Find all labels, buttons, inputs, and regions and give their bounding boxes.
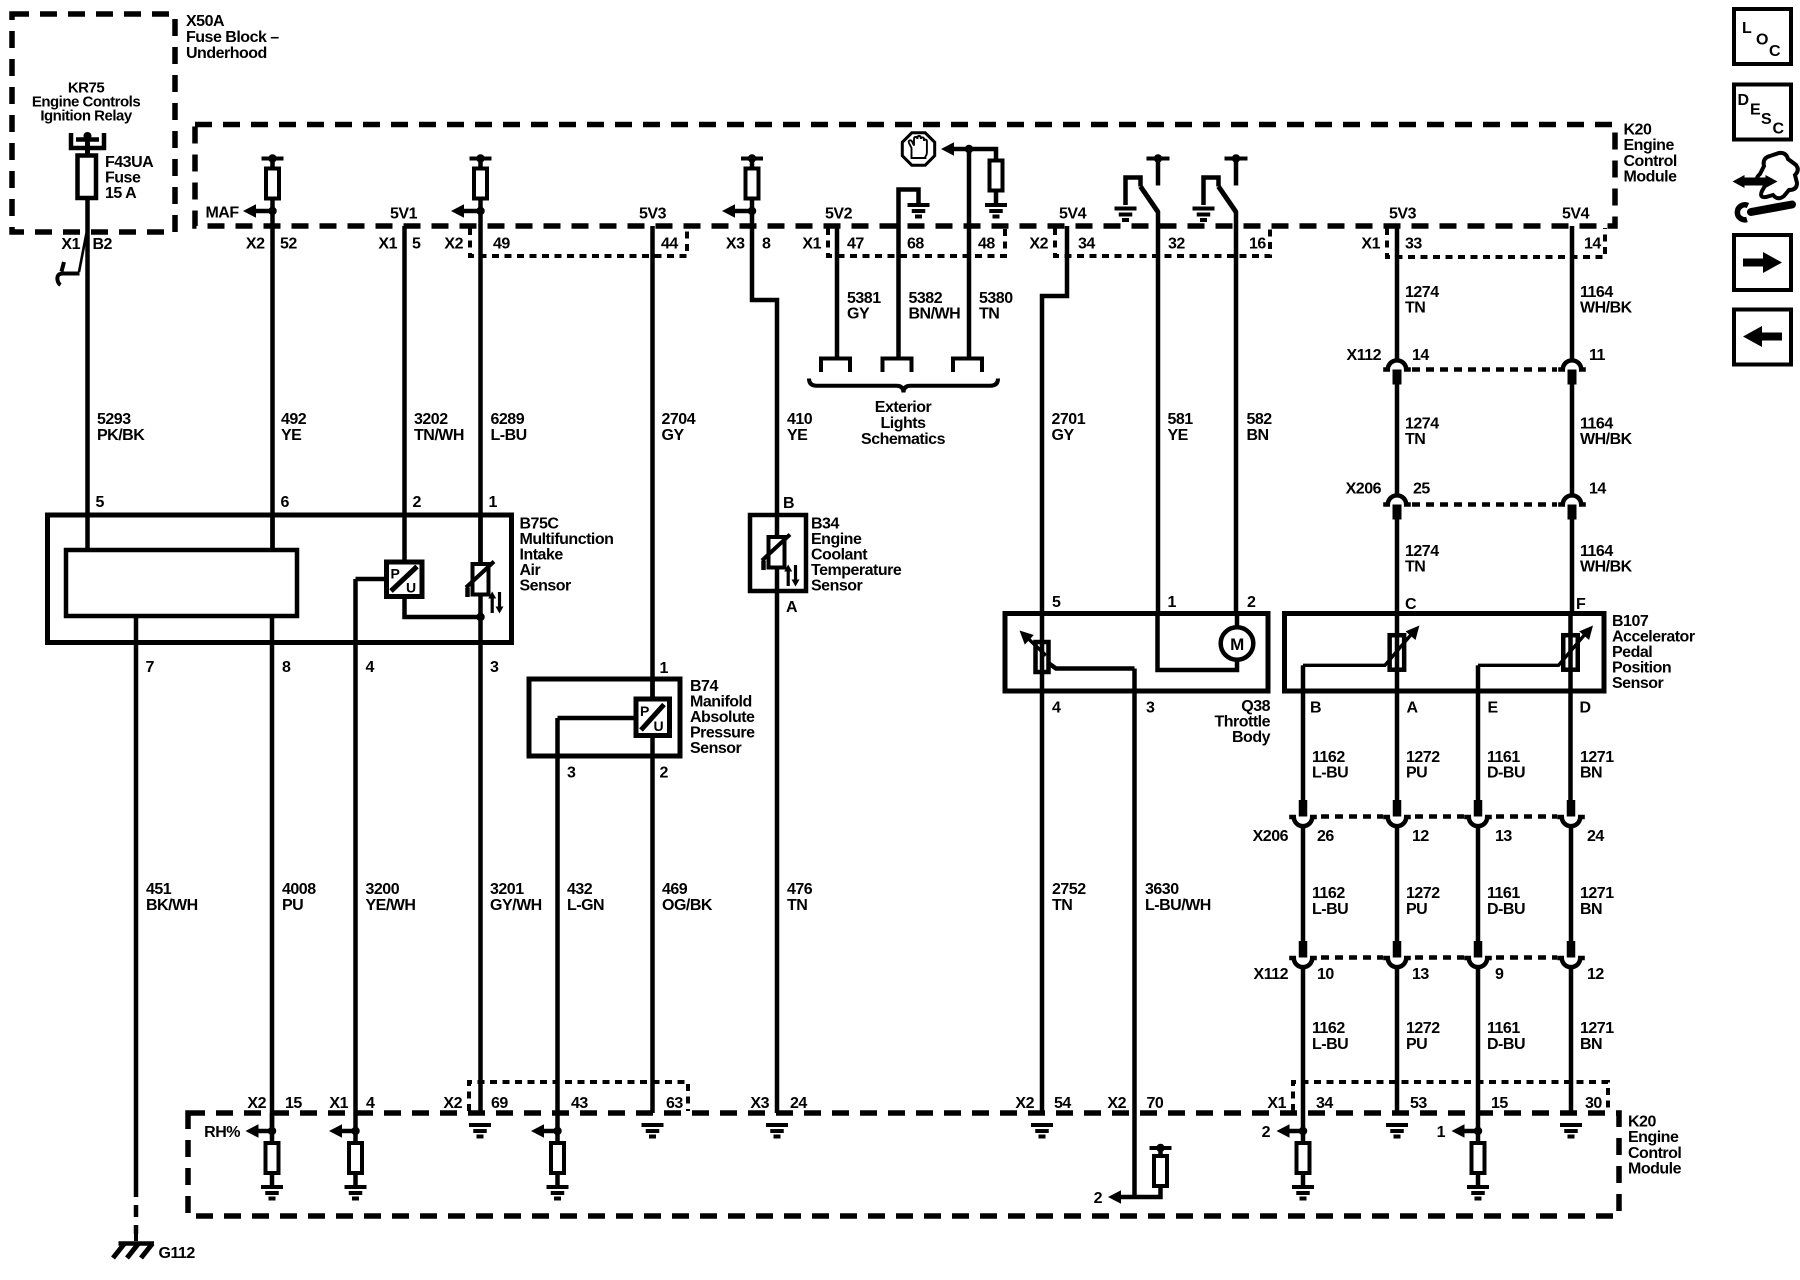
svg-text:Engine: Engine [1628,1129,1679,1146]
svg-text:X2: X2 [443,1095,462,1112]
svg-text:GY/WH: GY/WH [490,897,542,914]
svg-text:YE: YE [281,427,302,444]
svg-text:U: U [406,580,416,596]
svg-text:1162: 1162 [1312,749,1345,766]
svg-text:581: 581 [1168,411,1194,428]
svg-text:52: 52 [280,236,297,253]
svg-text:1: 1 [489,494,498,511]
svg-text:492: 492 [281,411,307,428]
svg-text:24: 24 [790,1095,807,1112]
svg-text:26: 26 [1317,828,1334,845]
svg-text:G112: G112 [159,1245,196,1262]
svg-text:1161: 1161 [1487,885,1520,902]
svg-text:1162: 1162 [1312,885,1345,902]
svg-text:PU: PU [1406,1036,1427,1053]
svg-text:476: 476 [787,881,813,898]
svg-text:5V4: 5V4 [1059,206,1087,223]
svg-text:1274: 1274 [1405,284,1439,301]
svg-text:1164: 1164 [1580,543,1613,560]
svg-text:Manifold: Manifold [690,694,752,711]
svg-text:34: 34 [1078,236,1095,253]
svg-text:1272: 1272 [1406,1020,1440,1037]
svg-text:14: 14 [1412,347,1429,364]
svg-text:451: 451 [146,881,172,898]
svg-text:X2: X2 [444,236,463,253]
svg-text:15: 15 [285,1095,302,1112]
svg-text:TN: TN [787,897,807,914]
svg-text:TN: TN [979,306,999,323]
svg-text:48: 48 [978,236,995,253]
svg-text:1: 1 [1437,1124,1446,1141]
svg-text:X2: X2 [1107,1095,1126,1112]
svg-text:Module: Module [1624,169,1678,186]
svg-text:X1: X1 [802,236,821,253]
svg-text:Intake: Intake [520,547,564,564]
svg-text:YE/WH: YE/WH [366,897,416,914]
svg-text:L: L [1742,20,1752,37]
svg-text:1272: 1272 [1406,749,1440,766]
svg-text:69: 69 [491,1095,508,1112]
svg-text:2704: 2704 [662,411,696,428]
svg-text:6: 6 [281,494,290,511]
svg-text:B34: B34 [811,516,839,533]
svg-text:L-BU: L-BU [1312,765,1348,782]
svg-text:BN/WH: BN/WH [909,306,961,323]
svg-text:63: 63 [666,1095,683,1112]
svg-text:WH/BK: WH/BK [1580,300,1633,317]
svg-text:5V4: 5V4 [1562,206,1590,223]
svg-text:Sensor: Sensor [811,578,863,595]
svg-text:A: A [786,599,798,616]
svg-text:PK/BK: PK/BK [97,427,145,444]
svg-text:4: 4 [366,659,375,676]
svg-text:PU: PU [1406,901,1427,918]
svg-text:Sensor: Sensor [520,578,572,595]
svg-text:432: 432 [567,881,593,898]
svg-text:5381: 5381 [847,290,881,307]
svg-text:X2: X2 [1029,236,1048,253]
svg-text:X206: X206 [1253,828,1289,845]
svg-text:P: P [391,566,400,582]
svg-text:D: D [1738,92,1749,109]
svg-text:5380: 5380 [979,290,1013,307]
svg-text:Pressure: Pressure [690,725,755,742]
svg-text:5V3: 5V3 [1389,206,1417,223]
svg-text:2: 2 [413,494,422,511]
svg-text:C: C [1769,43,1781,60]
svg-text:1164: 1164 [1580,284,1613,301]
svg-text:X2: X2 [246,236,265,253]
svg-text:25: 25 [1413,481,1430,498]
svg-text:YE: YE [1168,427,1189,444]
svg-text:Schematics: Schematics [861,431,946,448]
svg-text:K20: K20 [1624,122,1652,139]
svg-text:X3: X3 [726,236,745,253]
svg-text:D-BU: D-BU [1487,765,1525,782]
svg-text:53: 53 [1410,1095,1427,1112]
svg-text:33: 33 [1405,236,1422,253]
svg-text:12: 12 [1587,966,1604,983]
svg-text:X112: X112 [1347,347,1382,364]
svg-text:2: 2 [660,765,669,782]
svg-text:Position: Position [1612,660,1671,677]
svg-text:U: U [654,718,664,734]
svg-text:Underhood: Underhood [186,45,267,62]
svg-text:2: 2 [1094,1190,1103,1207]
svg-text:Exterior: Exterior [875,399,932,416]
svg-text:Sensor: Sensor [690,740,742,757]
svg-text:GY: GY [662,427,685,444]
svg-text:5293: 5293 [97,411,131,428]
svg-text:B2: B2 [93,236,113,253]
svg-text:11: 11 [1589,347,1606,364]
svg-text:E: E [1750,102,1761,119]
svg-text:4: 4 [1052,700,1061,717]
svg-text:B74: B74 [690,678,718,695]
svg-text:Body: Body [1232,729,1271,746]
svg-text:5: 5 [412,236,421,253]
svg-text:5V1: 5V1 [390,206,418,223]
svg-text:1274: 1274 [1405,543,1439,560]
svg-text:1271: 1271 [1580,885,1614,902]
svg-text:3: 3 [567,765,576,782]
svg-text:Absolute: Absolute [690,709,755,726]
svg-text:15 A: 15 A [105,185,137,202]
svg-text:Accelerator: Accelerator [1612,629,1695,646]
svg-text:16: 16 [1249,236,1266,253]
svg-text:582: 582 [1247,411,1273,428]
svg-text:8: 8 [762,236,771,253]
svg-text:K20: K20 [1628,1114,1656,1131]
svg-text:24: 24 [1587,828,1604,845]
svg-text:Fuse Block –: Fuse Block – [186,29,279,46]
svg-text:OG/BK: OG/BK [662,897,713,914]
svg-text:34: 34 [1316,1095,1333,1112]
svg-text:B75C: B75C [520,516,560,533]
svg-text:TN: TN [1052,897,1072,914]
svg-text:O: O [1756,32,1768,49]
svg-text:RH%: RH% [204,1124,240,1141]
svg-text:Ignition Relay: Ignition Relay [40,108,133,125]
svg-text:M: M [1230,635,1244,654]
svg-text:3630: 3630 [1145,881,1179,898]
svg-text:Lights: Lights [881,415,927,432]
svg-text:TN: TN [1405,431,1425,448]
svg-text:B: B [783,495,794,512]
svg-text:70: 70 [1147,1095,1164,1112]
svg-text:49: 49 [493,236,510,253]
svg-text:X1: X1 [1361,236,1380,253]
svg-text:5: 5 [96,494,105,511]
svg-text:F43UA: F43UA [105,154,154,171]
svg-text:WH/BK: WH/BK [1580,431,1633,448]
svg-text:TN: TN [1405,559,1425,576]
svg-text:X1: X1 [61,236,80,253]
svg-text:X112: X112 [1254,966,1289,983]
svg-text:TN: TN [1405,300,1425,317]
svg-text:Throttle: Throttle [1214,714,1270,731]
svg-text:X2: X2 [1015,1095,1034,1112]
svg-text:469: 469 [662,881,688,898]
svg-text:1271: 1271 [1580,749,1614,766]
svg-text:1: 1 [660,660,669,677]
svg-text:1164: 1164 [1580,416,1613,433]
svg-text:2: 2 [1247,594,1256,611]
svg-text:Multifunction: Multifunction [520,531,614,548]
svg-text:PU: PU [282,897,303,914]
svg-text:2701: 2701 [1052,411,1086,428]
svg-text:L-BU/WH: L-BU/WH [1145,897,1211,914]
svg-text:13: 13 [1412,966,1429,983]
svg-text:14: 14 [1584,236,1601,253]
svg-text:3202: 3202 [414,411,448,428]
svg-text:GY: GY [1052,427,1075,444]
svg-text:X1: X1 [378,236,397,253]
svg-text:F: F [1576,596,1586,613]
svg-text:Engine: Engine [1624,137,1675,154]
svg-text:4: 4 [366,1095,375,1112]
svg-text:5V3: 5V3 [639,206,667,223]
svg-text:1274: 1274 [1405,416,1439,433]
svg-text:S: S [1761,111,1772,128]
svg-text:5382: 5382 [909,290,943,307]
svg-text:44: 44 [661,236,678,253]
svg-text:B: B [1310,700,1321,717]
svg-text:32: 32 [1168,236,1185,253]
svg-text:68: 68 [907,236,924,253]
svg-text:2: 2 [1262,1124,1271,1141]
svg-text:Control: Control [1624,153,1677,170]
svg-text:7: 7 [146,659,155,676]
svg-text:X50A: X50A [186,13,225,30]
svg-text:Fuse: Fuse [105,170,141,187]
svg-text:C: C [1405,596,1417,613]
svg-text:1161: 1161 [1487,749,1520,766]
svg-text:12: 12 [1412,828,1429,845]
svg-text:MAF: MAF [205,205,239,222]
svg-text:10: 10 [1317,966,1334,983]
svg-text:6289: 6289 [491,411,525,428]
svg-text:13: 13 [1495,828,1512,845]
svg-text:X1: X1 [1267,1095,1286,1112]
svg-text:3: 3 [1146,700,1155,717]
svg-text:Coolant: Coolant [811,547,868,564]
svg-text:Temperature: Temperature [811,562,902,579]
svg-text:A: A [1407,700,1419,717]
svg-text:BN: BN [1580,901,1602,918]
svg-text:1: 1 [1168,594,1177,611]
svg-text:54: 54 [1054,1095,1071,1112]
svg-text:1162: 1162 [1312,1020,1345,1037]
svg-text:43: 43 [571,1095,588,1112]
svg-text:3: 3 [490,659,499,676]
svg-text:GY: GY [847,306,870,323]
svg-text:C: C [1773,121,1785,138]
svg-text:TN/WH: TN/WH [414,427,464,444]
svg-text:Engine: Engine [811,531,862,548]
svg-text:X1: X1 [329,1095,348,1112]
svg-text:15: 15 [1491,1095,1508,1112]
svg-text:30: 30 [1585,1095,1602,1112]
svg-text:3200: 3200 [366,881,400,898]
svg-text:L-GN: L-GN [567,897,604,914]
svg-text:YE: YE [787,427,808,444]
svg-text:47: 47 [847,236,864,253]
svg-text:X206: X206 [1346,481,1382,498]
svg-text:E: E [1488,700,1499,717]
svg-text:2752: 2752 [1052,881,1086,898]
svg-text:D-BU: D-BU [1487,1036,1525,1053]
svg-text:5V2: 5V2 [825,206,853,223]
svg-text:WH/BK: WH/BK [1580,559,1633,576]
svg-text:D: D [1580,700,1591,717]
svg-text:9: 9 [1495,966,1504,983]
svg-text:1271: 1271 [1580,1020,1614,1037]
svg-text:410: 410 [787,411,813,428]
svg-text:1272: 1272 [1406,885,1440,902]
svg-text:8: 8 [282,659,291,676]
svg-text:B107: B107 [1612,613,1649,630]
svg-text:Q38: Q38 [1241,698,1270,715]
svg-text:Air: Air [520,562,541,579]
svg-text:X2: X2 [247,1095,266,1112]
svg-text:Pedal: Pedal [1612,644,1652,661]
svg-text:4008: 4008 [282,881,316,898]
svg-text:1161: 1161 [1487,1020,1520,1037]
svg-text:P: P [640,703,649,719]
svg-text:L-BU: L-BU [1312,1036,1348,1053]
svg-text:PU: PU [1406,765,1427,782]
svg-text:BN: BN [1247,427,1269,444]
svg-text:L-BU: L-BU [1312,901,1348,918]
svg-text:D-BU: D-BU [1487,901,1525,918]
svg-text:BN: BN [1580,1036,1602,1053]
svg-text:Control: Control [1628,1145,1681,1162]
svg-text:BK/WH: BK/WH [146,897,198,914]
svg-text:L-BU: L-BU [491,427,527,444]
svg-text:3201: 3201 [490,881,524,898]
svg-text:Sensor: Sensor [1612,675,1664,692]
svg-text:Module: Module [1628,1161,1682,1178]
svg-text:X3: X3 [750,1095,769,1112]
svg-text:BN: BN [1580,765,1602,782]
svg-text:5: 5 [1052,594,1061,611]
svg-text:14: 14 [1589,481,1606,498]
